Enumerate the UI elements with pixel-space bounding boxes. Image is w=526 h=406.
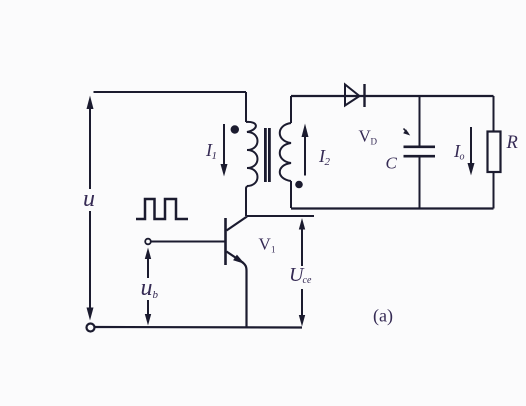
svg-text:1: 1	[271, 245, 276, 255]
svg-text:C: C	[386, 154, 398, 173]
svg-text:2: 2	[325, 156, 331, 168]
svg-text:u: u	[141, 275, 153, 301]
svg-text:D: D	[371, 137, 378, 147]
svg-text:V: V	[259, 235, 272, 254]
svg-text:1: 1	[212, 150, 218, 162]
svg-text:o: o	[460, 152, 465, 163]
svg-text:(a): (a)	[373, 306, 393, 327]
svg-text:ce: ce	[303, 275, 312, 286]
svg-text:b: b	[153, 289, 159, 301]
svg-text:R: R	[506, 133, 518, 153]
svg-text:u: u	[83, 186, 95, 212]
